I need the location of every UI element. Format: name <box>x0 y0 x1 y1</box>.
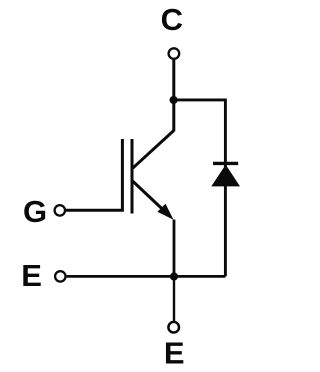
junction bottom <box>170 272 178 280</box>
transistor Q1 emitter diagonal <box>132 181 166 213</box>
wire emitter vertical <box>173 220 176 277</box>
diode D1 anode triangle <box>211 165 240 187</box>
transistor Q1 emitter arrowhead <box>157 204 173 220</box>
junction top <box>170 96 178 104</box>
svg-text:G: G <box>23 194 47 229</box>
terminal E bottom <box>168 322 179 333</box>
terminal E left <box>55 271 65 281</box>
transistor Q1 gate plate and lead <box>66 139 123 210</box>
wire collector vertical <box>172 60 175 132</box>
svg-text:C: C <box>161 2 183 37</box>
wire to bottom terminal <box>173 277 175 322</box>
svg-text:E: E <box>164 335 185 370</box>
wire emitter horizontal <box>67 275 226 278</box>
terminal G <box>55 205 65 215</box>
transistor Q1 body bar <box>131 139 134 214</box>
wire diode branch <box>174 100 226 277</box>
transistor Q1 collector diagonal <box>132 131 174 169</box>
diode D1 cathode bar <box>213 162 238 165</box>
svg-text:E: E <box>21 258 42 293</box>
terminal C <box>169 48 180 59</box>
